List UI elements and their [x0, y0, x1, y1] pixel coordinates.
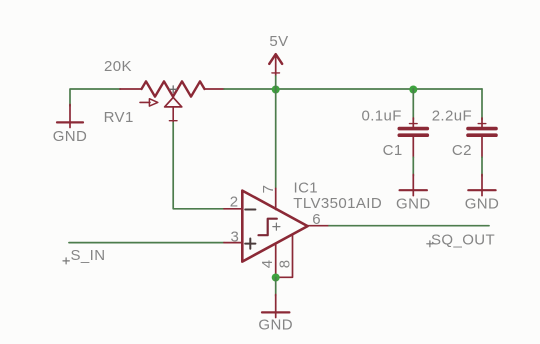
svg-text:5V: 5V — [269, 33, 288, 50]
svg-text:RV1: RV1 — [104, 109, 134, 126]
wire junction to C1 — [412, 89, 414, 120]
junction at 5V node — [272, 86, 280, 94]
wire 5V pin to rail junction — [275, 76, 277, 89]
wire left rail corner to GND — [70, 89, 121, 106]
pin 8 — [276, 234, 293, 277]
wire op-amp ground — [275, 278, 277, 297]
ground GND C1 — [396, 175, 431, 213]
svg-text:6: 6 — [312, 211, 321, 228]
pin 6 — [308, 225, 329, 227]
svg-text:GND: GND — [465, 195, 500, 212]
svg-text:0.1uF: 0.1uF — [362, 107, 402, 124]
svg-text:4: 4 — [259, 260, 276, 269]
svg-text:7: 7 — [260, 185, 277, 194]
ground GND left — [53, 105, 88, 145]
wire C1 to ground — [412, 157, 414, 176]
capacitor C2 — [468, 118, 496, 157]
net label S_IN — [63, 247, 105, 264]
pin 7 — [275, 188, 277, 209]
wire 5V junction to pin 7 — [275, 89, 277, 188]
wire output SQ_OUT — [329, 225, 489, 227]
pin 4 — [275, 243, 277, 277]
wire rail from pot to C2 drop — [224, 88, 482, 90]
wire C2 to ground — [481, 157, 483, 176]
junction at C1 — [409, 86, 417, 94]
svg-text:20K: 20K — [104, 58, 132, 75]
svg-text:GND: GND — [53, 128, 88, 145]
svg-text:3: 3 — [231, 229, 240, 246]
capacitor C1 — [399, 118, 427, 157]
potentiometer RV1 — [120, 81, 224, 122]
svg-text:IC1: IC1 — [294, 179, 319, 196]
svg-text:C2: C2 — [452, 142, 472, 159]
pin 3 — [224, 242, 242, 244]
net label SQ_OUT — [427, 231, 495, 248]
svg-text:S_IN: S_IN — [71, 247, 106, 264]
svg-text:TLV3501AID: TLV3501AID — [293, 195, 382, 212]
ground GND op-amp — [258, 295, 293, 334]
svg-text:GND: GND — [396, 195, 431, 212]
svg-text:2: 2 — [230, 194, 239, 211]
junction at op-amp ground — [272, 274, 280, 282]
pin 2 — [224, 208, 242, 210]
wire rail drop to C2 — [481, 89, 483, 120]
svg-text:C1: C1 — [383, 142, 403, 159]
power 5V — [269, 33, 288, 76]
svg-text:GND: GND — [258, 317, 293, 334]
wire S_IN to pin 3 — [69, 242, 224, 244]
op-amp IC1 body — [242, 191, 307, 262]
ground GND C2 — [465, 175, 500, 213]
svg-text:2.2uF: 2.2uF — [432, 107, 472, 124]
svg-text:SQ_OUT: SQ_OUT — [431, 231, 495, 248]
wire pot wiper to pin 2 — [173, 123, 224, 209]
svg-text:8: 8 — [277, 260, 294, 269]
